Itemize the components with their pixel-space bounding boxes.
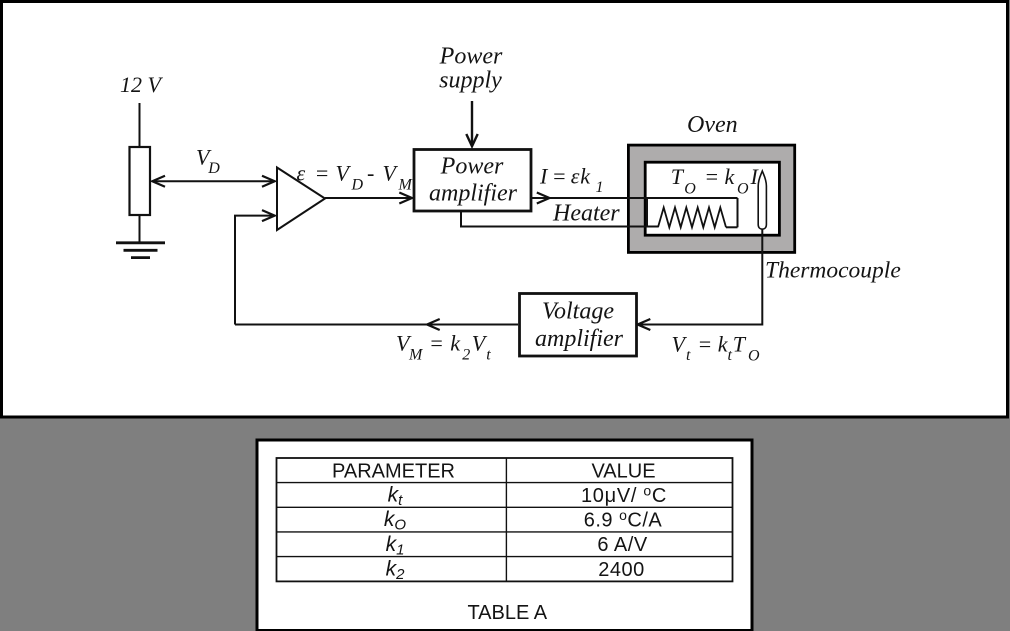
oven chamber inner wall (645, 162, 779, 235)
svg-text:TABLE A: TABLE A (467, 602, 547, 624)
svg-text:Power: Power (439, 43, 503, 69)
ground (116, 243, 165, 258)
table panel (257, 440, 752, 631)
svg-text:supply: supply (439, 68, 502, 94)
svg-text:10μV/ oC: 10μV/ oC (581, 482, 667, 507)
wire 12V supply lead (139, 103, 141, 147)
svg-text:Oven: Oven (687, 112, 738, 138)
wire feedback from voltage amplifier to op-amp (235, 324, 518, 326)
wire op-amp output to power amplifier (325, 197, 411, 199)
svg-text:Voltage: Voltage (542, 298, 614, 324)
table grid (277, 458, 733, 581)
resistor R1 (voltage source / potentiometer) (130, 147, 151, 215)
oven enclosure outer wall (628, 145, 794, 252)
op-amp U1 (277, 168, 325, 231)
table text (332, 460, 667, 624)
heater resistor zigzag (658, 208, 726, 228)
svg-text:amplifier: amplifier (429, 181, 518, 207)
svg-text:Power: Power (440, 153, 504, 179)
wire VD double-headed arrow (153, 180, 274, 182)
heater loop left edge (646, 198, 648, 227)
wire power supply arrow (471, 101, 473, 144)
wire feedback into op-amp lower input (235, 216, 273, 325)
svg-text:amplifier: amplifier (535, 326, 624, 352)
wire heater top lead (531, 197, 738, 199)
voltage amplifier block (520, 294, 637, 357)
svg-text:12 V: 12 V (120, 72, 164, 97)
diagram panel (2, 2, 1008, 418)
svg-text:2400: 2400 (598, 559, 645, 581)
labels : diagram (italic serif) (120, 43, 901, 364)
thermocouple probe (758, 171, 766, 229)
svg-text:PARAMETER: PARAMETER (332, 460, 455, 482)
wire thermocouple to voltage amplifier (640, 228, 762, 325)
wire heater bottom return lead (461, 211, 658, 227)
svg-text:6 A/V: 6 A/V (597, 534, 647, 556)
svg-text:Heater: Heater (552, 200, 620, 226)
svg-text:Thermocouple: Thermocouple (765, 258, 901, 284)
wire heater right lead (737, 198, 739, 227)
svg-text:VALUE: VALUE (591, 460, 655, 482)
power amplifier block (414, 150, 531, 212)
wire resistor to ground (139, 215, 141, 242)
